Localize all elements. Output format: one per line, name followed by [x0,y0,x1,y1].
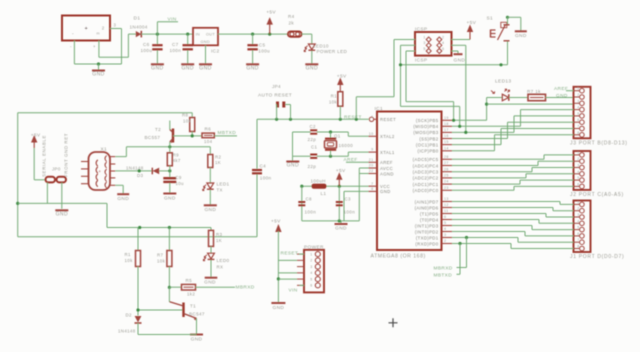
svg-text:2: 2 [577,207,579,211]
svg-text:3: 3 [114,23,117,28]
svg-text:(AIN1)PD7: (AIN1)PD7 [415,199,439,204]
svg-text:(T1)PD5: (T1)PD5 [420,211,439,216]
svg-text:10k: 10k [329,100,338,105]
svg-text:4: 4 [310,271,312,275]
svg-text:R1: R1 [125,252,132,257]
svg-text:(INT0)PD2: (INT0)PD2 [415,229,439,234]
svg-text:GND: GND [273,305,285,311]
svg-text:4k7: 4k7 [173,158,181,163]
svg-text:(INT1)PD3: (INT1)PD3 [415,223,439,228]
svg-text:BC557: BC557 [145,135,161,140]
svg-text:LED10: LED10 [313,44,329,49]
svg-text:1: 1 [577,151,579,155]
svg-text:AGND: AGND [380,171,394,176]
svg-text:MBRXD: MBRXD [434,266,453,272]
svg-text:(MOSI)PB3: (MOSI)PB3 [413,130,438,135]
svg-text:ICSP: ICSP [415,57,428,63]
svg-text:100n: 100n [170,48,182,53]
svg-text:+: + [98,169,101,174]
svg-text:JP4: JP4 [272,84,281,89]
svg-text:IN: IN [196,32,201,36]
svg-text:GND: GND [380,189,391,194]
svg-text:6: 6 [577,118,579,122]
svg-text:BC547: BC547 [189,312,205,317]
svg-text:22p: 22p [308,164,317,169]
svg-text:6: 6 [577,232,579,236]
svg-text:1: 1 [577,200,579,204]
svg-text:22p: 22p [308,137,317,142]
svg-text:Q1: Q1 [334,134,341,139]
svg-text:J3 PORT B(D8-D13): J3 PORT B(D8-D13) [570,141,628,147]
svg-text:TX: TX [217,188,223,193]
svg-text:2: 2 [577,157,579,161]
svg-text:(AIN0)PD6: (AIN0)PD6 [415,205,439,210]
svg-text:18: 18 [444,122,449,126]
svg-text:D3: D3 [137,173,144,178]
svg-text:SERIAL ENABLE: SERIAL ENABLE [42,135,47,177]
svg-text:+5V: +5V [266,10,276,16]
svg-text:R7 1k: R7 1k [527,89,541,94]
svg-text:100uH: 100uH [311,179,326,184]
svg-text:1: 1 [577,87,579,91]
svg-text:1: 1 [371,115,373,119]
svg-text:AREF: AREF [380,160,393,165]
svg-text:+: + [93,44,96,49]
svg-text:3: 3 [310,265,312,269]
svg-text:9: 9 [371,148,373,152]
svg-text:3: 3 [444,233,446,237]
svg-text:5: 5 [577,112,579,116]
svg-text:(ICP)PB0: (ICP)PB0 [418,149,439,154]
svg-text:R5: R5 [186,278,193,283]
svg-text:RESET: RESET [344,114,362,120]
svg-text:8: 8 [577,245,579,249]
svg-text:FRONT GND RET: FRONT GND RET [64,133,69,177]
svg-text:+5V: +5V [31,133,41,139]
svg-text:3: 3 [577,99,579,103]
svg-text:12: 12 [444,203,449,207]
svg-text:GND: GND [199,66,211,72]
svg-text:GND: GND [454,57,466,63]
svg-text:(T0)PD4: (T0)PD4 [420,217,439,222]
svg-text:1N4148: 1N4148 [126,165,144,170]
svg-text:6: 6 [444,215,446,219]
svg-text:S1: S1 [487,16,494,22]
svg-text:-: - [72,31,74,37]
svg-text:IC2: IC2 [211,48,220,54]
svg-text:10k: 10k [125,258,134,263]
svg-text:R4: R4 [288,14,295,19]
svg-text:17: 17 [444,128,449,132]
svg-text:8: 8 [371,187,373,191]
svg-text:+5V: +5V [336,168,346,174]
svg-text:C2: C2 [310,124,317,129]
svg-text:MBTXD: MBTXD [218,130,237,136]
svg-text:GND: GND [515,33,527,39]
svg-text:26: 26 [444,167,449,171]
svg-text:AVCC: AVCC [380,166,393,171]
svg-text:(ADC0)PC0: (ADC0)PC0 [413,188,439,193]
svg-text:2: 2 [577,93,579,97]
svg-text:5: 5 [444,221,446,225]
svg-text:4: 4 [444,227,446,231]
svg-text:7: 7 [371,182,373,186]
svg-text:15: 15 [444,140,449,144]
svg-text:MBRXD: MBRXD [236,284,255,290]
svg-text:RX: RX [217,264,224,269]
svg-text:LED13: LED13 [495,79,511,85]
svg-text:ICSP: ICSP [415,27,428,33]
svg-text:22: 22 [369,169,374,173]
svg-text:GND: GND [56,212,68,218]
svg-text:AUTO RESET: AUTO RESET [258,93,292,99]
svg-text:16000: 16000 [339,143,354,148]
svg-text:10u: 10u [175,181,184,186]
svg-text:(ADC1)PC1: (ADC1)PC1 [413,182,439,187]
svg-text:GND: GND [306,66,318,72]
svg-text:GND: GND [164,195,176,201]
svg-text:19: 19 [444,116,449,120]
svg-text:(ADC5)PC5: (ADC5)PC5 [413,157,439,162]
svg-text:GND: GND [204,207,216,213]
svg-text:1N4004: 1N4004 [130,25,148,30]
svg-text:ATMEGA8 (OR 168): ATMEGA8 (OR 168) [371,254,426,260]
svg-text:+: + [85,26,89,32]
svg-text:GND: GND [181,66,193,72]
svg-text:LED1: LED1 [217,182,230,187]
svg-text:5: 5 [577,176,579,180]
svg-text:5: 5 [310,277,312,281]
svg-text:3: 3 [577,213,579,217]
svg-text:GND: GND [151,66,163,72]
svg-text:3: 3 [423,41,425,45]
svg-text:GND: GND [335,226,347,232]
svg-text:JP0: JP0 [52,167,61,172]
svg-text:XTAL1: XTAL1 [380,150,395,155]
svg-text:24: 24 [444,180,449,184]
svg-text:AREF: AREF [554,86,568,92]
svg-text:4: 4 [442,41,444,45]
svg-text:MBTXD: MBTXD [434,273,453,279]
svg-text:-: - [70,44,72,49]
svg-text:(SCK)PB5: (SCK)PB5 [416,118,439,123]
svg-text:100n: 100n [305,210,317,215]
svg-text:(RXD)PD0: (RXD)PD0 [415,241,438,246]
svg-text:1: 1 [310,252,312,256]
svg-text:GND: GND [92,72,104,78]
svg-text:R6: R6 [205,127,212,132]
svg-text:21: 21 [369,158,374,162]
svg-text:11: 11 [444,209,448,213]
svg-text:VIN: VIN [168,17,177,23]
svg-text:(SS)PB2: (SS)PB2 [419,136,438,141]
svg-text:T2: T2 [155,127,161,132]
svg-text:(ADC3)PC3: (ADC3)PC3 [413,170,439,175]
svg-text:GND: GND [117,196,129,202]
svg-text:J1 PORT D(D0-D7): J1 PORT D(D0-D7) [570,254,624,260]
svg-text:7: 7 [577,125,579,129]
svg-text:10k: 10k [183,119,192,124]
svg-text:(TXD)PD1: (TXD)PD1 [416,235,439,240]
svg-text:GND: GND [287,163,299,169]
svg-text:C9: C9 [175,175,182,180]
svg-text:IC1: IC1 [375,106,384,112]
svg-text:D2: D2 [126,313,133,318]
svg-text:C3: C3 [345,197,352,202]
svg-text:14: 14 [444,146,449,150]
svg-text:C8: C8 [306,197,313,202]
svg-text:1K: 1K [216,238,222,243]
svg-text:2: 2 [444,239,446,243]
svg-text:100u: 100u [258,48,270,53]
svg-text:GND: GND [204,279,216,285]
svg-text:+5V: +5V [467,20,477,26]
svg-text:10: 10 [369,132,374,136]
svg-text:POWER LED: POWER LED [317,49,348,54]
svg-text:(ADC4)PC4: (ADC4)PC4 [413,163,439,168]
svg-text:VIN: VIN [289,287,298,293]
svg-text:1: 1 [423,35,425,39]
svg-text:C7: C7 [172,42,179,47]
svg-text:28: 28 [444,155,449,159]
svg-text:7: 7 [577,238,579,242]
svg-text:104: 104 [204,139,213,144]
svg-text:100n: 100n [344,210,356,215]
svg-text:27: 27 [444,161,449,165]
svg-text:T1: T1 [190,304,196,309]
svg-text:OUT: OUT [206,32,215,36]
svg-text:m: m [97,32,100,36]
svg-text:8: 8 [577,131,579,135]
svg-text:4: 4 [577,170,579,174]
svg-text:2: 2 [442,35,444,39]
svg-text:4: 4 [577,219,579,223]
svg-text:1k2: 1k2 [187,292,195,297]
svg-text:R3: R3 [216,232,223,237]
svg-text:2k: 2k [289,21,295,26]
svg-text:R8: R8 [182,113,189,118]
svg-text:R2: R2 [215,154,222,159]
svg-text:6: 6 [577,182,579,186]
svg-text:C4: C4 [260,164,267,169]
svg-text:2: 2 [102,26,105,31]
svg-text:LED0: LED0 [217,258,230,263]
svg-text:5: 5 [577,226,579,230]
svg-text:3: 3 [577,164,579,168]
svg-text:C1: C1 [311,145,318,150]
svg-text:C6: C6 [143,42,150,47]
svg-text:R1: R1 [331,94,338,99]
svg-text:100n: 100n [260,176,272,181]
svg-text:RESET: RESET [281,251,299,257]
svg-text:5: 5 [423,47,425,51]
svg-text:4: 4 [577,106,579,110]
svg-text:AREF: AREF [344,157,358,163]
svg-text:GND: GND [191,337,203,343]
svg-text:(MISO)PB4: (MISO)PB4 [413,124,438,129]
svg-text:6: 6 [442,47,444,51]
svg-text:J2 PORT C(A0-A5): J2 PORT C(A0-A5) [570,192,624,198]
svg-text:C5: C5 [259,43,266,48]
svg-text:D1: D1 [134,16,141,22]
svg-text:XTAL2: XTAL2 [380,134,395,139]
svg-text:R7: R7 [157,253,164,258]
svg-text:20: 20 [369,164,374,168]
svg-text:GND: GND [201,40,211,44]
svg-text:(ADC2)PC2: (ADC2)PC2 [413,176,439,181]
svg-text:23: 23 [444,186,449,190]
svg-text:(OC1)PB1: (OC1)PB1 [416,142,439,147]
svg-text:1N4148: 1N4148 [118,329,136,334]
svg-text:GND: GND [246,66,258,72]
svg-text:10k: 10k [157,259,166,264]
svg-text:16: 16 [444,134,449,138]
svg-text:RESET: RESET [380,117,396,122]
svg-text:GND: GND [556,93,568,99]
svg-text:1K: 1K [215,160,221,165]
svg-text:+5V: +5V [271,219,281,225]
svg-text:+5V: +5V [337,74,347,80]
svg-text:R9: R9 [173,152,180,157]
svg-text:L1: L1 [321,191,327,196]
svg-text:6: 6 [310,284,312,288]
svg-text:100u: 100u [141,48,153,53]
svg-text:2: 2 [310,259,312,263]
svg-text:13: 13 [444,197,449,201]
svg-text:25: 25 [444,174,449,178]
